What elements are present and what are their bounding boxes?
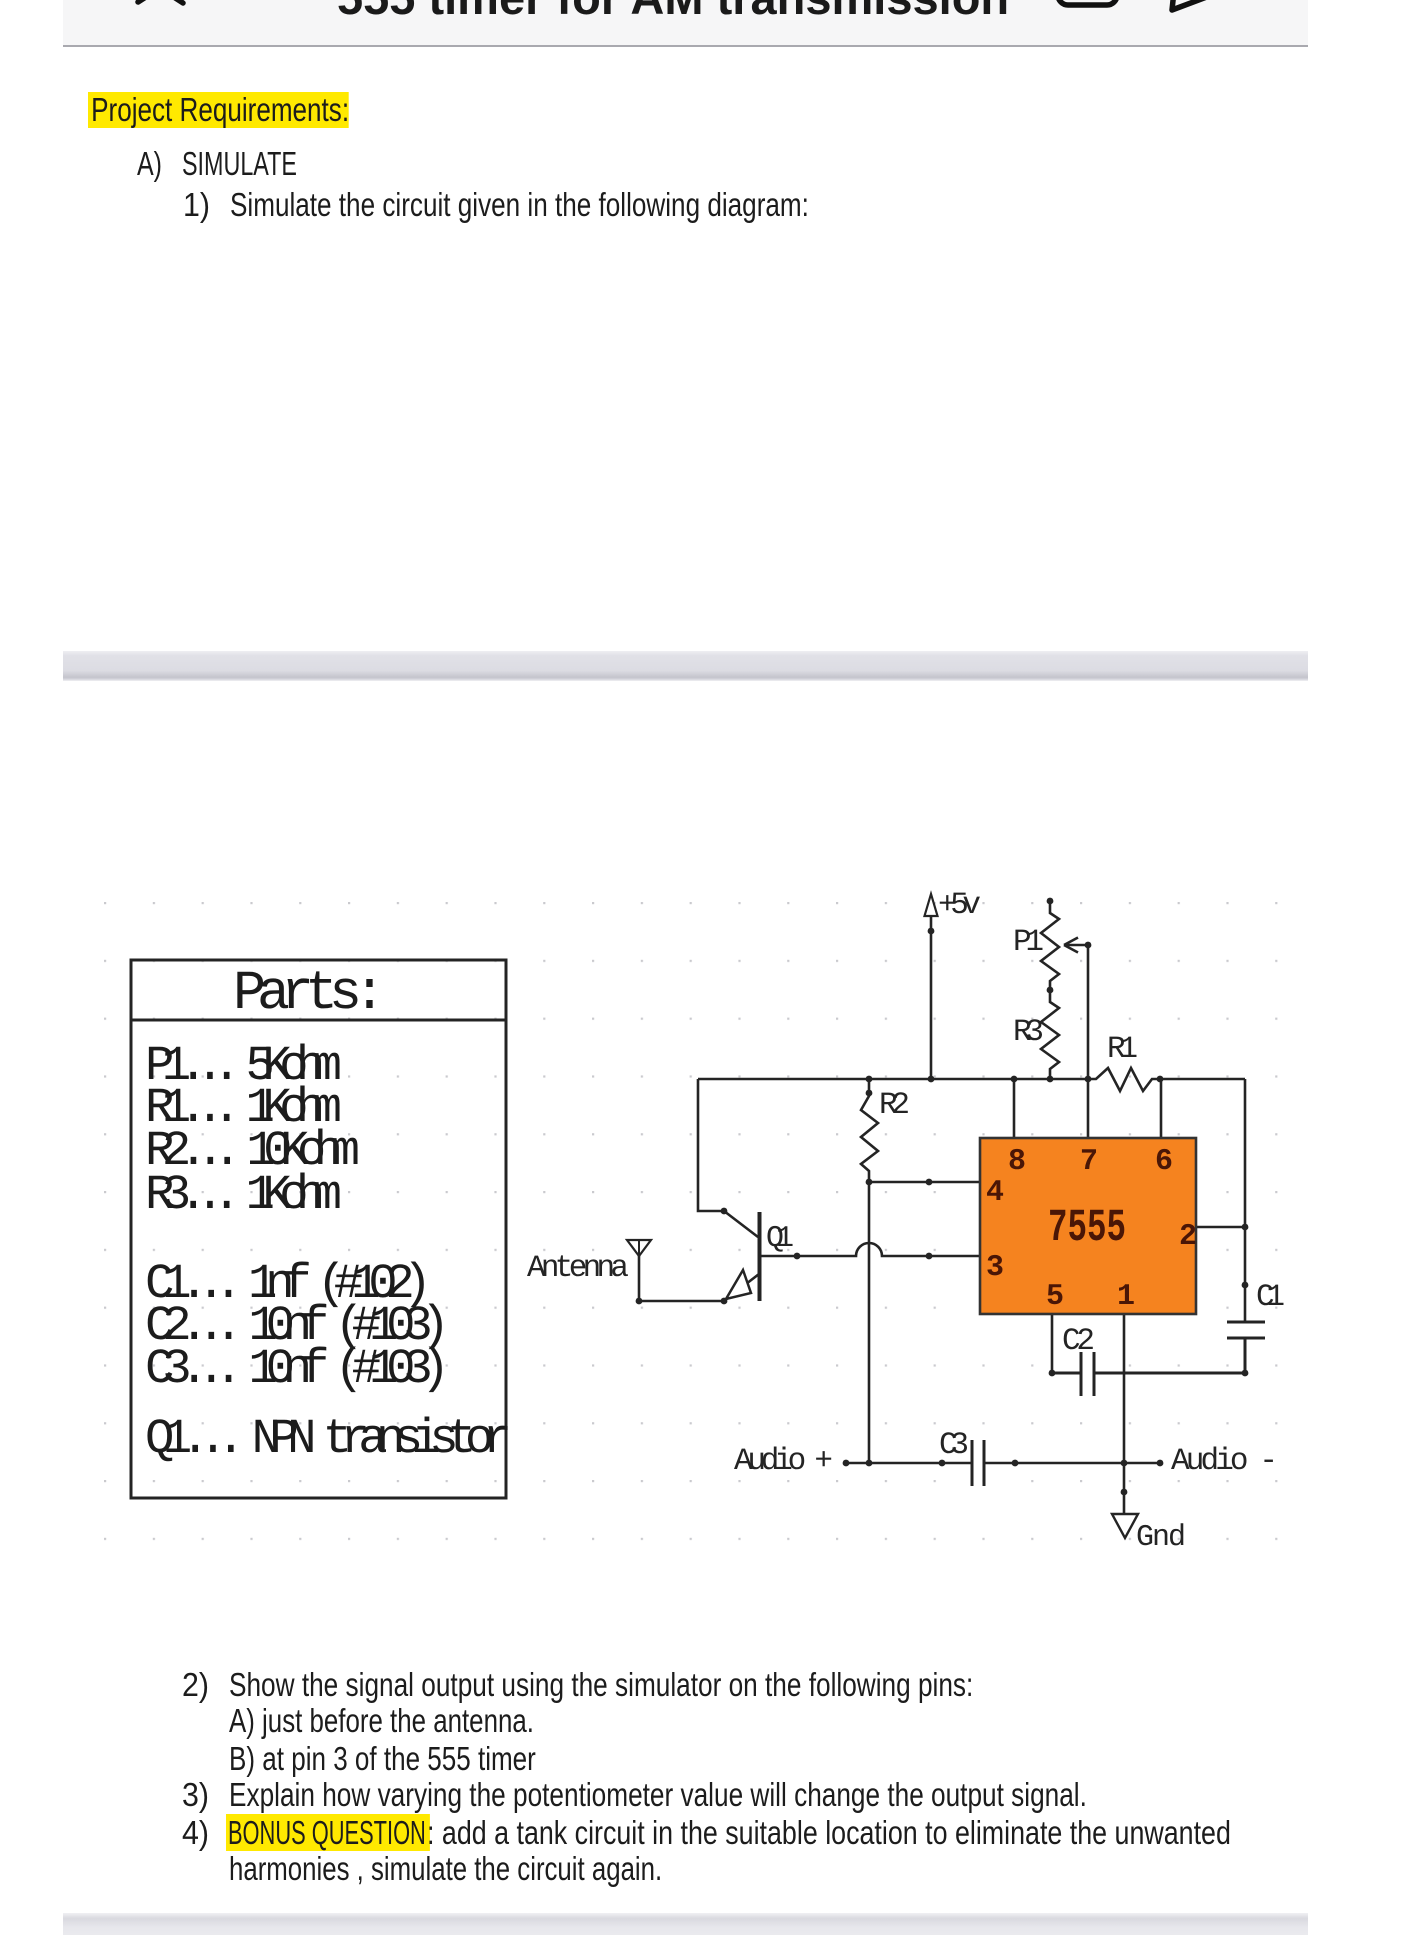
svg-text:4: 4 bbox=[986, 1176, 1004, 1210]
wire VCC bus bbox=[698, 1078, 1245, 1081]
node P1 top bbox=[1047, 898, 1054, 905]
svg-text:C3: C3 bbox=[939, 1428, 969, 1463]
node collector corner bbox=[721, 1208, 728, 1215]
capacitor C2 bbox=[1052, 1352, 1245, 1396]
node gnd lead bbox=[1121, 1489, 1128, 1496]
power +5v bbox=[925, 894, 938, 1079]
bottom page separator band bbox=[63, 1913, 1308, 1935]
potentiometer P1 bbox=[1041, 901, 1059, 990]
node pin 3 wire bbox=[926, 1253, 933, 1260]
top toolbar bar bbox=[63, 0, 1308, 47]
node P1/R3 junction bbox=[1047, 987, 1054, 994]
node R2 bottom on audio wire bbox=[866, 1460, 873, 1467]
A) SIMULATE bbox=[137, 147, 162, 180]
svg-text:C1: C1 bbox=[1256, 1280, 1285, 1315]
node P1 wiper bbox=[1085, 942, 1092, 949]
wire pin 8 riser bbox=[1013, 1079, 1016, 1138]
node pin5/C2 left bbox=[1049, 1370, 1056, 1377]
page separator band bbox=[63, 651, 1308, 681]
svg-text:5: 5 bbox=[1046, 1280, 1064, 1314]
wire emitter to antenna bbox=[639, 1300, 724, 1303]
svg-text:R3: R3 bbox=[1013, 1015, 1044, 1050]
resistor R1 bbox=[1088, 1068, 1160, 1091]
svg-text:Parts:: Parts: bbox=[233, 962, 386, 1025]
toolbar title (cut off at top): 555 timer for AM transmission bbox=[337, 0, 1009, 21]
circuit labels bbox=[527, 888, 1285, 1555]
capacitor C1 bbox=[1227, 1322, 1265, 1373]
node audio- end bbox=[1157, 1460, 1164, 1467]
svg-text:3: 3 bbox=[986, 1251, 1004, 1285]
node antenna foot bbox=[636, 1298, 643, 1305]
svg-text:Q1: Q1 bbox=[766, 1222, 794, 1256]
svg-text:2: 2 bbox=[1179, 1220, 1197, 1254]
node R3 bottom on bus bbox=[1047, 1076, 1054, 1083]
bottom numbered list bbox=[182, 1668, 209, 1701]
svg-text:Audio +: Audio + bbox=[734, 1444, 833, 1479]
node C1 top lead bbox=[1242, 1282, 1249, 1289]
wire audio line bbox=[846, 1462, 1160, 1465]
wire pin 4 bbox=[869, 1181, 980, 1184]
svg-text:6: 6 bbox=[1155, 1145, 1173, 1179]
node pin8 riser on bus bbox=[1011, 1076, 1018, 1083]
node +5v lead bbox=[928, 928, 935, 935]
svg-text:C3... 10nf (#103): C3... 10nf (#103) bbox=[145, 1341, 450, 1397]
svg-text:Antenna: Antenna bbox=[527, 1251, 629, 1286]
node audio+ start bbox=[843, 1460, 850, 1467]
svg-text:R1: R1 bbox=[1107, 1032, 1138, 1067]
node C1 bottom / C2 wire bbox=[1242, 1370, 1249, 1377]
svg-text:Gnd: Gnd bbox=[1136, 1521, 1186, 1555]
wire pin 2 bbox=[1196, 1226, 1245, 1229]
svg-text:P1: P1 bbox=[1013, 925, 1044, 960]
parts list text bbox=[145, 962, 512, 1467]
svg-text:Audio -: Audio - bbox=[1171, 1444, 1278, 1479]
node +5v on bus bbox=[928, 1076, 935, 1083]
svg-text:+5v: +5v bbox=[938, 888, 981, 923]
node pin1 on audio wire bbox=[1121, 1460, 1128, 1467]
svg-text:R2: R2 bbox=[879, 1088, 910, 1123]
wire base to pin 3 bbox=[761, 1243, 980, 1256]
resistor R3 bbox=[1041, 990, 1059, 1079]
ground symbol bbox=[1112, 1514, 1138, 1538]
parts box bbox=[131, 960, 506, 1498]
transistor Q1 base bar bbox=[758, 1212, 762, 1301]
close (X) icon, cut off bbox=[123, 0, 203, 20]
svg-text:1: 1 bbox=[1117, 1280, 1135, 1314]
wire pin 5 bbox=[1051, 1314, 1054, 1373]
svg-text:R3... 1Kohm: R3... 1Kohm bbox=[145, 1167, 342, 1223]
wire right rail to C1 bbox=[1244, 1079, 1247, 1322]
junction dots bbox=[636, 898, 1249, 1496]
wire pin 7 riser bbox=[1087, 945, 1090, 1138]
wire pin 6 riser bbox=[1160, 1079, 1163, 1138]
heading: Project Requirements: (yellow highlight) bbox=[88, 92, 349, 128]
node Q1 base bbox=[794, 1253, 801, 1260]
antenna bbox=[627, 1240, 651, 1301]
node R1 right on bus bbox=[1157, 1076, 1164, 1083]
node R2 pin bbox=[866, 1090, 873, 1097]
node R1 left on bus bbox=[1085, 1076, 1092, 1083]
pen icon (cut off) bbox=[1163, 0, 1233, 24]
wire collector branch bbox=[698, 1079, 758, 1237]
node R2/pin4 junction bbox=[866, 1179, 873, 1186]
svg-text:7: 7 bbox=[1080, 1145, 1098, 1179]
P1 wiper arrow bbox=[1064, 938, 1088, 953]
transistor Q1 emitter bbox=[724, 1270, 759, 1301]
node R2 top on bus bbox=[866, 1076, 873, 1083]
wire pin 1 / ground bbox=[1123, 1314, 1126, 1513]
svg-text:Q1... NPN transistor: Q1... NPN transistor bbox=[145, 1411, 512, 1467]
IC 7555 (U1) bbox=[980, 1138, 1196, 1314]
note icon (rounded rect, cut off) bbox=[1053, 0, 1133, 20]
svg-text:7555: 7555 bbox=[1048, 1202, 1126, 1254]
node emitter end bbox=[721, 1298, 728, 1305]
node C3 right lead bbox=[1012, 1460, 1019, 1467]
svg-text:C2: C2 bbox=[1062, 1324, 1095, 1359]
node C3 left lead bbox=[939, 1460, 946, 1467]
capacitor C3 bbox=[972, 1440, 984, 1486]
node pin 2 / right rail bbox=[1242, 1224, 1249, 1231]
svg-text:8: 8 bbox=[1008, 1145, 1026, 1179]
resistor R2 bbox=[861, 1079, 878, 1463]
node pin 4 wire bbox=[926, 1179, 933, 1186]
1) Simulate the circuit ... bbox=[183, 188, 210, 221]
